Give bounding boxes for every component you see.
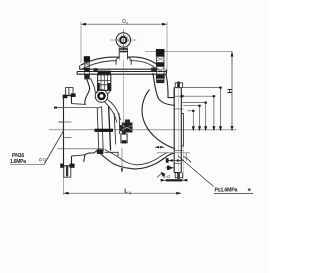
- body bottom outer: [84, 151, 175, 169]
- bolt hole dim bottom dark bar: [161, 174, 188, 182]
- dimension bracket D3: [183, 105, 201, 132]
- swing arm: [105, 100, 121, 123]
- cover flange joint: [77, 66, 166, 75]
- small dims below right flange: [157, 88, 191, 181]
- right flange top bolt: [175, 82, 182, 88]
- body bottom inner: [105, 150, 168, 165]
- cover arch: [81, 57, 159, 69]
- svg-text:1.6MPa: 1.6MPa: [10, 159, 26, 165]
- top boss circle: [111, 30, 137, 51]
- svg-text:⊕: ⊕: [248, 187, 252, 192]
- dimension bracket bore: [187, 110, 194, 131]
- dimension bracket D2: [182, 102, 207, 132]
- dimension bracket D: [174, 87, 222, 132]
- disc hub dark bar: [95, 129, 114, 132]
- hinge bracket: [94, 68, 111, 90]
- left flange: [59, 96, 86, 166]
- svg-text:Do: Do: [122, 19, 128, 25]
- outlet passage upper wall: [153, 73, 175, 105]
- dimension Do top: [81, 19, 167, 73]
- chamber left wall: [85, 74, 95, 104]
- right flange bottom bolt: [175, 173, 182, 179]
- right flange: [174, 88, 183, 173]
- inlet bore bottom line: [58, 148, 104, 150]
- flange thickness dim small: [155, 146, 164, 148]
- valve axis vertical: [123, 60, 125, 132]
- note text left: [10, 153, 46, 165]
- arm lower lines: [114, 113, 120, 145]
- leader line right: [178, 156, 214, 187]
- body right outer wall: [166, 75, 174, 98]
- outlet passage inner C wall: [142, 90, 175, 149]
- note text right: [214, 187, 253, 194]
- left flange bottom bolt: [60, 164, 74, 178]
- disc: [97, 107, 118, 157]
- leader line left: [44, 130, 64, 165]
- cover bolt right: [151, 49, 165, 83]
- disc nut: [120, 120, 133, 144]
- dimension L bottom: [64, 166, 182, 195]
- left flange top bolt: [63, 88, 76, 99]
- seat extension tick bottom: [121, 148, 123, 173]
- hinge pin circle: [95, 90, 111, 103]
- svg-text:H: H: [227, 88, 234, 93]
- svg-text:4-d: 4-d: [163, 174, 170, 179]
- inlet bore top line: [54, 107, 98, 109]
- dimension bracket D1: [181, 95, 216, 131]
- centerline: [49, 129, 237, 131]
- dimension H right: [145, 52, 234, 132]
- svg-text:P≤1.6MPa: P≤1.6MPa: [215, 188, 238, 194]
- cover bolt left: [84, 56, 90, 79]
- bore bottom extension right: [157, 152, 191, 154]
- stem under boss: [116, 47, 131, 65]
